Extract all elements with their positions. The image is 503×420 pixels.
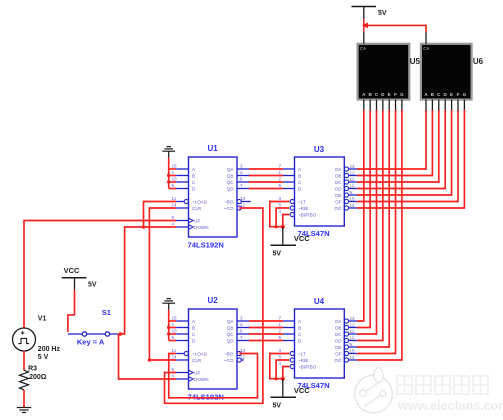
ground below R3 [17, 408, 31, 413]
svg-text:11: 11 [350, 329, 355, 334]
inverting bubble U3 OC [344, 180, 348, 184]
svg-text:4: 4 [172, 221, 175, 226]
junction [119, 332, 122, 335]
ground above U1 [162, 147, 175, 158]
svg-text:13: 13 [350, 164, 356, 169]
svg-text:2: 2 [279, 328, 282, 333]
svg-text:DOWN: DOWN [194, 377, 209, 382]
pin numbers U3 [279, 163, 356, 214]
svg-text:6: 6 [240, 328, 243, 333]
source V1 [13, 328, 36, 351]
wires U4 outputs to U5 segments [357, 110, 402, 360]
wire ~BI/RBO pull-up U4 [283, 367, 290, 379]
svg-text:U1: U1 [208, 144, 219, 153]
wire switch to U2 DOWN [119, 334, 177, 379]
svg-text:200 Hz: 200 Hz [38, 346, 61, 353]
svg-text:5: 5 [172, 215, 175, 220]
counter U1 74LS192N [189, 157, 238, 237]
svg-text:QC: QC [227, 332, 235, 337]
inverting bubble U4 OB [344, 325, 348, 329]
svg-text:4: 4 [279, 361, 282, 366]
svg-text:~BI/RBO: ~BI/RBO [298, 364, 317, 369]
inverting bubble U1 ~CO pin 12 [237, 206, 241, 210]
svg-text:~CO: ~CO [224, 206, 234, 211]
svg-text:74LS192N: 74LS192N [188, 240, 224, 249]
svg-text:G: G [463, 92, 467, 97]
svg-text:OC: OC [335, 180, 343, 185]
svg-text:~LT: ~LT [298, 351, 306, 356]
wire ~LT pull-up U4 [270, 354, 290, 379]
inverting bubble U3 ~LT [290, 199, 294, 203]
inverting bubble U4 ~RBI [290, 358, 294, 362]
svg-text:9: 9 [172, 335, 175, 340]
wires U3 outputs to U6 segments [357, 110, 464, 208]
svg-text:15: 15 [172, 315, 178, 320]
svg-text:OE: OE [335, 193, 342, 198]
junction [167, 174, 170, 177]
svg-text:5V: 5V [273, 402, 282, 409]
inverting bubble U4 OA [344, 319, 348, 323]
svg-text:15: 15 [172, 163, 178, 168]
svg-text:VCC: VCC [294, 234, 310, 243]
decoder U4 74LS47N [295, 309, 345, 378]
svg-text:5V: 5V [88, 282, 97, 289]
svg-text:11: 11 [172, 196, 177, 201]
svg-text:~BI/RBO: ~BI/RBO [298, 212, 317, 217]
svg-text:OB: OB [335, 325, 342, 330]
inverting bubble U3 OG [344, 206, 348, 210]
svg-text:10: 10 [172, 176, 178, 181]
svg-text:5 V: 5 V [38, 354, 49, 361]
svg-text:DOWN: DOWN [194, 225, 209, 230]
wire ground to ABCD inputs [169, 310, 177, 341]
power 5V top [352, 6, 377, 8]
svg-text:9: 9 [172, 183, 175, 188]
svg-text:VCC: VCC [294, 386, 310, 395]
svg-text:S1: S1 [102, 308, 111, 317]
svg-text:1: 1 [279, 170, 282, 175]
pin names U1 [192, 167, 234, 230]
svg-text:~LT: ~LT [298, 199, 306, 204]
svg-text:OE: OE [335, 345, 342, 350]
junction [274, 225, 277, 228]
wire VCC to switch S1 [68, 290, 75, 332]
svg-text:13: 13 [350, 316, 356, 321]
inverting bubble U3 OA [344, 167, 348, 171]
svg-text:2: 2 [240, 322, 243, 327]
svg-text:~BO: ~BO [224, 351, 234, 356]
svg-text:11: 11 [172, 348, 177, 353]
svg-text:OA: OA [335, 319, 343, 324]
svg-text:F: F [457, 92, 460, 97]
power 5V supply under U4 [282, 379, 284, 398]
svg-text:OD: OD [335, 338, 343, 343]
svg-text:CLR: CLR [192, 206, 202, 211]
wires BCD U1 to U3 [249, 169, 283, 189]
segment pin letters U5 [362, 92, 404, 97]
svg-text:UP: UP [194, 370, 200, 375]
svg-text:6: 6 [279, 335, 282, 340]
svg-text:B: B [192, 325, 195, 330]
svg-text:7: 7 [240, 335, 243, 340]
svg-text:3: 3 [240, 163, 243, 168]
wire branch to U1 LOAD [144, 202, 177, 228]
svg-text:12: 12 [350, 322, 356, 327]
inverting bubble U2 ~CO pin 12 [237, 358, 241, 362]
svg-text:6: 6 [240, 176, 243, 181]
svg-text:U6: U6 [473, 57, 484, 66]
svg-text:Key = A: Key = A [77, 338, 105, 347]
wire U1 ~CO to U2 UP [165, 208, 263, 403]
svg-text:~RBI: ~RBI [298, 206, 308, 211]
junction [281, 225, 285, 229]
wires BCD U2 to U4 [249, 321, 283, 341]
svg-text:V1: V1 [38, 316, 47, 323]
inverting bubble U4 ~LT [290, 351, 294, 355]
svg-text:5V: 5V [273, 250, 282, 257]
watermark logo circle [355, 368, 393, 413]
svg-text:OG: OG [334, 358, 342, 363]
wire V1 to R3 [23, 351, 25, 370]
inverting bubble U4 OC [344, 332, 348, 336]
pin stubs U6 [426, 100, 464, 112]
svg-text:15: 15 [350, 196, 356, 201]
pin names U2 [192, 319, 234, 382]
inverting bubble U3 OE [344, 193, 348, 197]
inverting bubble U2 ~LOAD pin 11 [184, 351, 188, 355]
svg-text:3: 3 [240, 315, 243, 320]
svg-text:5: 5 [279, 202, 282, 207]
svg-text:CLR: CLR [192, 358, 202, 363]
svg-text:B: B [298, 325, 301, 330]
power 5V supply under U3 [282, 227, 284, 246]
svg-text:7: 7 [279, 315, 282, 320]
inverting bubble U3 ~RBI [290, 206, 294, 210]
wire R3 to ground [23, 390, 25, 408]
svg-text:14: 14 [350, 355, 356, 360]
resistor R3 [20, 370, 29, 390]
svg-text:1: 1 [172, 322, 175, 327]
svg-text:QD: QD [227, 186, 235, 191]
svg-text:9: 9 [350, 190, 353, 195]
svg-text:OF: OF [335, 199, 342, 204]
svg-text:3: 3 [279, 348, 282, 353]
svg-text:12: 12 [240, 354, 246, 359]
pin numbers U2 [172, 315, 246, 378]
inverting bubble U4 OE [344, 345, 348, 349]
wire ~RBI pull-up U4 [276, 360, 289, 379]
svg-text:U4: U4 [314, 297, 325, 306]
display U6 seven-segment [421, 44, 472, 100]
inverting bubble U3 OF [344, 199, 348, 203]
counter U2 74LS192N [189, 309, 238, 389]
svg-text:VCC: VCC [64, 266, 80, 275]
svg-text:1: 1 [172, 170, 175, 175]
inverting bubble U2 ~BO pin 13 [237, 351, 241, 355]
svg-text:~CO: ~CO [224, 358, 234, 363]
wire U1 CLR to U2 CLR [149, 208, 176, 360]
display U5 seven-segment [358, 44, 410, 100]
segment pin letters U6 [424, 92, 466, 97]
svg-text:OD: OD [335, 186, 343, 191]
svg-text:4: 4 [279, 209, 282, 214]
inverting bubble U1 ~LOAD pin 11 [184, 199, 188, 203]
svg-text:QA: QA [227, 167, 235, 172]
svg-text:10: 10 [350, 183, 356, 188]
inverting bubble U3 OB [344, 173, 348, 177]
svg-text:OF: OF [335, 351, 342, 356]
svg-text:7: 7 [240, 183, 243, 188]
svg-text:QD: QD [227, 338, 235, 343]
junction [274, 377, 277, 380]
svg-text:B: B [192, 173, 195, 178]
svg-text:U5: U5 [410, 57, 421, 66]
svg-text:QB: QB [227, 325, 234, 330]
svg-text:QB: QB [227, 173, 234, 178]
junction [281, 377, 285, 381]
svg-text:7: 7 [279, 163, 282, 168]
pin numbers U1 [172, 163, 246, 226]
svg-text:F: F [394, 92, 397, 97]
pin stubs U5 [364, 100, 402, 112]
svg-text:~LOAD: ~LOAD [192, 351, 208, 356]
wire ~BI/RBO pull-up U3 [283, 215, 290, 227]
svg-text:CA: CA [423, 46, 430, 51]
inverting bubble U4 OF [344, 351, 348, 355]
svg-text:3: 3 [279, 196, 282, 201]
svg-text:2: 2 [279, 176, 282, 181]
inverting bubble U3 OD [344, 186, 348, 190]
svg-text:U3: U3 [314, 145, 325, 154]
wire V1 top to U1 UP pin [24, 221, 176, 329]
svg-text:74LS192N: 74LS192N [188, 392, 224, 401]
svg-text:15: 15 [350, 348, 356, 353]
wire U2 ~BO to U2 ~LOAD [169, 354, 258, 398]
junction arrow [363, 19, 365, 32]
inverting bubble U4 OD [344, 338, 348, 342]
svg-text:CA: CA [360, 46, 367, 51]
svg-text:10: 10 [172, 328, 178, 333]
svg-text:~BO: ~BO [224, 199, 234, 204]
junction [148, 358, 151, 361]
wire ~LT pull-up U3 [270, 202, 290, 227]
svg-text:U2: U2 [208, 296, 219, 305]
svg-text:6: 6 [279, 183, 282, 188]
svg-text:11: 11 [350, 177, 355, 182]
junction [167, 180, 170, 183]
wire switch to LOAD-DOWN net [118, 227, 176, 334]
clock arrows U2 UP DOWN [189, 370, 194, 381]
junction [167, 332, 170, 335]
svg-text:4: 4 [172, 373, 175, 378]
svg-text:5: 5 [279, 354, 282, 359]
wire 5V to U5 CA [363, 7, 365, 44]
svg-text:E: E [450, 92, 453, 97]
svg-text:QA: QA [227, 319, 235, 324]
wire ground to ABCD inputs [169, 158, 177, 189]
inverting bubble U4 ~BI/RBO [290, 364, 294, 368]
svg-text:1: 1 [279, 322, 282, 327]
watermark CJK-style glyph blocks [397, 376, 488, 394]
svg-text:QC: QC [227, 180, 235, 185]
svg-text:UP: UP [194, 218, 200, 223]
svg-text:www.elecfans.com: www.elecfans.com [397, 399, 503, 413]
svg-text:14: 14 [172, 202, 178, 207]
svg-text:OC: OC [335, 332, 343, 337]
svg-text:~LOAD: ~LOAD [192, 199, 208, 204]
switch S1 [68, 332, 118, 336]
svg-text:13: 13 [240, 196, 246, 201]
svg-text:~RBI: ~RBI [298, 358, 308, 363]
svg-text:B: B [298, 173, 301, 178]
junction [142, 225, 145, 228]
svg-text:5: 5 [172, 367, 175, 372]
pin numbers U4 [279, 315, 356, 366]
decoder U3 74LS47N [295, 157, 345, 226]
svg-text:10: 10 [350, 335, 356, 340]
svg-text:12: 12 [240, 202, 246, 207]
svg-text:12: 12 [350, 170, 356, 175]
svg-text:OA: OA [335, 167, 343, 172]
svg-text:2: 2 [240, 170, 243, 175]
svg-text:OB: OB [335, 173, 342, 178]
svg-text:9: 9 [350, 342, 353, 347]
inverting bubble U4 OG [344, 358, 348, 362]
svg-text:14: 14 [350, 203, 356, 208]
svg-text:R3: R3 [28, 366, 37, 373]
pin names U3 [298, 167, 342, 218]
wire ~RBI pull-up U3 [276, 208, 289, 227]
svg-text:G: G [400, 92, 404, 97]
svg-text:13: 13 [240, 348, 246, 353]
svg-text:E: E [388, 92, 391, 97]
inverting bubble U1 ~BO pin 13 [237, 199, 241, 203]
svg-text:OG: OG [334, 206, 342, 211]
pin names U4 [298, 319, 342, 370]
wire 5V to U6 CA [364, 25, 426, 32]
clock arrows U1 UP DOWN [189, 218, 194, 229]
svg-text:5V: 5V [378, 10, 387, 17]
junction [167, 326, 170, 329]
inverting bubble U3 ~BI/RBO [290, 212, 294, 216]
svg-text:14: 14 [172, 354, 178, 359]
ground above U2 [162, 299, 175, 310]
svg-text:200Ω: 200Ω [29, 374, 47, 381]
